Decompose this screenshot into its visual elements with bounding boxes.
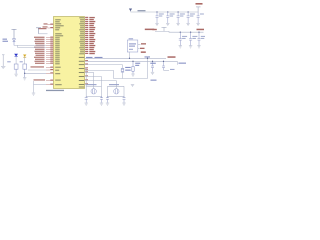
capacitor Ctop-1 [156,12,159,23]
net label xtal long [86,57,93,58]
D1 value label [3,39,8,40]
resistor R yellow-led [23,64,27,77]
power flag far-left [2,55,5,66]
IC U1 right pin stubs + numbers + net labels [85,17,88,19]
ground Q2a [106,103,109,105]
ground led2 [23,78,26,80]
Y1 labels [125,67,131,68]
wire XTAL rails [85,58,177,78]
junction dots row2 [180,32,200,33]
wire 2nd cap rail [155,30,204,33]
capacitor Q1b [100,96,103,102]
capacitor Q2a [106,96,109,102]
power VCC top-left [36,28,41,34]
capacitor C xtal1 [151,61,154,72]
red net label on rail [168,56,176,58]
crystal Y1 [121,68,124,72]
capacitor Crow2-1 [179,32,182,45]
osc1 label [87,84,97,85]
capacitor Q1a [85,96,88,102]
junction J1-xtal2 [129,58,130,59]
ground Ctop-2 [166,23,169,25]
capacitor Ctop-5 [197,12,200,23]
labels near rail [145,56,151,57]
capacitor Ctop-4 [187,12,190,23]
resistor R xtal [132,61,134,73]
ground Crow2-2 [189,46,192,48]
C xtal2 tail label [170,69,175,70]
wire rail end [176,61,178,65]
ground Q1b [100,103,103,105]
red net label top-right [196,3,203,5]
capacitor C xtal2 [162,61,165,70]
net labels vcc row [145,29,155,31]
wire C xtal2 tail [164,69,170,71]
Ctop-4 label [190,14,195,15]
ground bottom-left [32,93,35,95]
capacitor Crow2-3 [198,32,201,45]
crystal Q2 [108,86,125,97]
Ctop-3 label [180,14,185,15]
ground crystal-loop [131,85,134,87]
Ctop-5 label [200,14,204,15]
resistor R blue-led [14,64,18,74]
ground C xtal1 [151,72,154,74]
ground Crow2-1 [179,46,182,48]
wire reset net [14,45,46,47]
R xtal label [135,63,140,64]
wire top rail [131,11,199,13]
Crow2-1 label [182,36,187,37]
ground R xtal [131,74,134,76]
power bar top-right [196,7,201,12]
J1 red labels [141,43,146,44]
ground far-left [1,66,5,68]
ground led1 [14,74,17,76]
ground Ctop-1 [155,23,158,25]
J1 labels [129,38,134,39]
Ctop-2 label [170,14,175,15]
ground Crow2-3 [197,46,200,48]
wire XTAL2 [85,57,166,59]
capacitor Ctop-2 [166,12,169,23]
IC U1 ATmega body [54,17,85,89]
capacitor Ctop-3 [177,12,180,23]
LED yellow [23,55,26,58]
junction dots top rail [156,11,188,12]
wire to IC pins [25,70,46,73]
IC U1 right pin-name column [79,17,85,87]
rail name text [138,10,146,11]
Crow2-3 label [201,36,206,37]
ground Ctop-5 [196,23,199,25]
capacitor Q2b [123,96,126,102]
connector J1 box [127,40,140,58]
Crow2-2 label [192,36,197,37]
IC value text below body [46,90,64,91]
junction dots rail [132,58,164,62]
LED blue [14,54,18,57]
IC U1 left pin stubs [48,24,54,26]
wire [39,33,48,35]
osc2 label [109,84,119,85]
IC U1 left pin-name column [55,19,64,85]
power VCC left [12,29,17,38]
diode D1 [13,39,16,46]
capacitor Crow2-2 [189,32,192,45]
wire osc connections [85,69,116,89]
IC U1 left net labels [31,23,48,80]
crystal Q1 [86,86,101,97]
wire bottom-left [34,81,47,93]
ground Q1a [85,103,88,105]
ground Ctop-3 [176,23,179,25]
Ctop-1 label [159,14,164,15]
power bar mid-right [162,27,167,31]
ground Q2b [122,103,125,105]
power flag triangle top rail [129,9,132,12]
ground Ctop-4 [186,23,189,25]
R led value labels [7,61,11,62]
